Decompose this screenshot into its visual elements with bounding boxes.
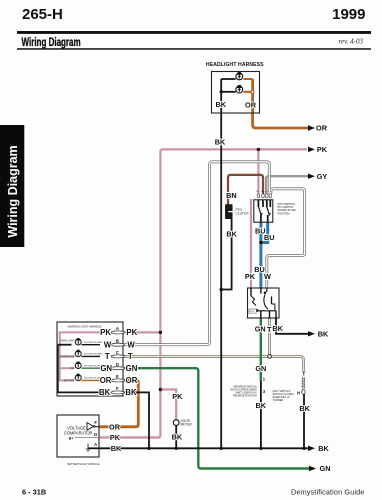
svg-text:H: H	[297, 390, 300, 395]
svg-text:E: E	[116, 374, 119, 379]
svg-text:BU: BU	[264, 233, 275, 242]
svg-text:D: D	[116, 362, 119, 367]
svg-text:RUN POS: RUN POS	[248, 313, 257, 315]
svg-text:PK: PK	[126, 328, 137, 337]
svg-text:OR: OR	[109, 422, 121, 431]
svg-text:HEAD LIGHT: HEAD LIGHT	[60, 340, 75, 343]
svg-text:BK: BK	[299, 404, 310, 413]
svg-text:BK: BK	[318, 444, 329, 453]
svg-text:T: T	[267, 325, 272, 334]
svg-text:A: A	[94, 442, 97, 447]
svg-text:POSITION: POSITION	[278, 212, 290, 215]
svg-text:GY: GY	[317, 172, 328, 181]
svg-text:BK: BK	[172, 433, 183, 442]
svg-text:GN: GN	[255, 325, 266, 334]
svg-text:BK: BK	[111, 444, 122, 453]
svg-text:PK: PK	[100, 328, 111, 337]
svg-text:INDICATOR LAMP: INDICATOR LAMP	[84, 341, 103, 344]
svg-text:INDICATOR LAMP: INDICATOR LAMP	[84, 353, 103, 356]
svg-text:WARNING LIGHT HARNESS: WARNING LIGHT HARNESS	[67, 324, 101, 328]
svg-text:BK: BK	[216, 100, 227, 109]
svg-text:METER: METER	[181, 422, 193, 426]
svg-text:PK: PK	[110, 433, 121, 442]
svg-text:PK: PK	[317, 145, 328, 154]
svg-text:GN: GN	[320, 464, 331, 473]
svg-text:OR: OR	[245, 101, 257, 110]
svg-text:OR: OR	[126, 376, 138, 385]
svg-text:BK: BK	[125, 388, 137, 397]
svg-text:C: C	[116, 350, 119, 355]
svg-text:GN: GN	[126, 364, 138, 373]
svg-text:CLUTCH: CLUTCH	[236, 211, 250, 215]
svg-text:OIL: OIL	[71, 367, 76, 370]
svg-text:1: 1	[263, 377, 266, 382]
svg-text:6 - 31B: 6 - 31B	[22, 487, 46, 496]
svg-text:CHARGE IND: CHARGE IND	[59, 355, 74, 358]
svg-text:PK: PK	[172, 392, 183, 401]
svg-text:W: W	[264, 272, 271, 281]
svg-text:B+: B+	[69, 437, 73, 441]
svg-text:W: W	[266, 191, 268, 193]
svg-text:GN: GN	[255, 364, 266, 373]
svg-text:BK: BK	[215, 138, 226, 147]
svg-text:W: W	[104, 340, 112, 349]
svg-text:Wiring Diagram: Wiring Diagram	[6, 145, 20, 237]
svg-text:BN: BN	[261, 191, 264, 193]
svg-text:HEADLIGHT HARNESS: HEADLIGHT HARNESS	[206, 62, 264, 68]
svg-text:PK: PK	[245, 272, 256, 281]
svg-text:TURNED: TURNED	[273, 398, 284, 402]
svg-text:F: F	[116, 386, 119, 391]
svg-text:3: 3	[263, 389, 266, 394]
svg-text:OR: OR	[100, 376, 112, 385]
svg-text:1999: 1999	[332, 6, 365, 23]
svg-text:rev. 4-03: rev. 4-03	[339, 38, 364, 46]
svg-text:A: A	[116, 326, 119, 331]
svg-text:BK: BK	[318, 329, 329, 338]
svg-text:D: D	[94, 432, 97, 437]
svg-text:GN: GN	[100, 364, 112, 373]
svg-text:BK: BK	[99, 388, 111, 397]
svg-text:B: B	[116, 338, 119, 343]
svg-text:REVERSE POSITION: REVERSE POSITION	[233, 395, 257, 398]
svg-text:OR: OR	[316, 124, 328, 133]
svg-text:F: F	[94, 420, 97, 425]
svg-text:Demystification Guide: Demystification Guide	[291, 488, 365, 497]
svg-text:BK: BK	[256, 401, 267, 410]
svg-text:T: T	[105, 352, 110, 361]
svg-text:265-H: 265-H	[22, 6, 63, 23]
svg-text:BK: BK	[272, 324, 283, 333]
svg-text:BN: BN	[226, 191, 237, 200]
svg-text:BK: BK	[226, 230, 237, 239]
svg-text:T: T	[128, 352, 133, 361]
svg-text:BATTERY: BATTERY	[64, 379, 75, 382]
svg-text:COMPARATOR: COMPARATOR	[64, 431, 93, 436]
svg-text:BATTERY/LIGHT MODULE: BATTERY/LIGHT MODULE	[68, 462, 100, 466]
svg-text:Wiring Diagram: Wiring Diagram	[21, 37, 80, 50]
svg-text:W: W	[127, 340, 135, 349]
svg-text:T: T	[302, 371, 306, 377]
